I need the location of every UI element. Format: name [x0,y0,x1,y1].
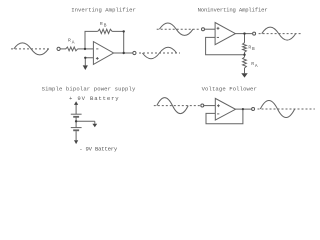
svg-text:A: A [72,40,75,46]
svg-text:Inverting Amplifier: Inverting Amplifier [71,7,136,14]
svg-text:R: R [251,61,254,67]
svg-text:Noninverting Amplifier: Noninverting Amplifier [198,7,268,14]
svg-text:+ 9V Battery: + 9V Battery [69,95,119,102]
svg-text:B: B [252,46,255,52]
svg-text:R: R [68,37,71,43]
svg-text:R: R [248,44,251,50]
svg-text:- 9V Battery: - 9V Battery [79,145,118,152]
svg-text:Simple bipolar power supply: Simple bipolar power supply [42,86,136,93]
svg-text:Voltage Follower: Voltage Follower [202,86,257,93]
svg-text:R: R [100,21,103,27]
svg-text:B: B [104,23,107,29]
svg-text:A: A [255,63,258,69]
